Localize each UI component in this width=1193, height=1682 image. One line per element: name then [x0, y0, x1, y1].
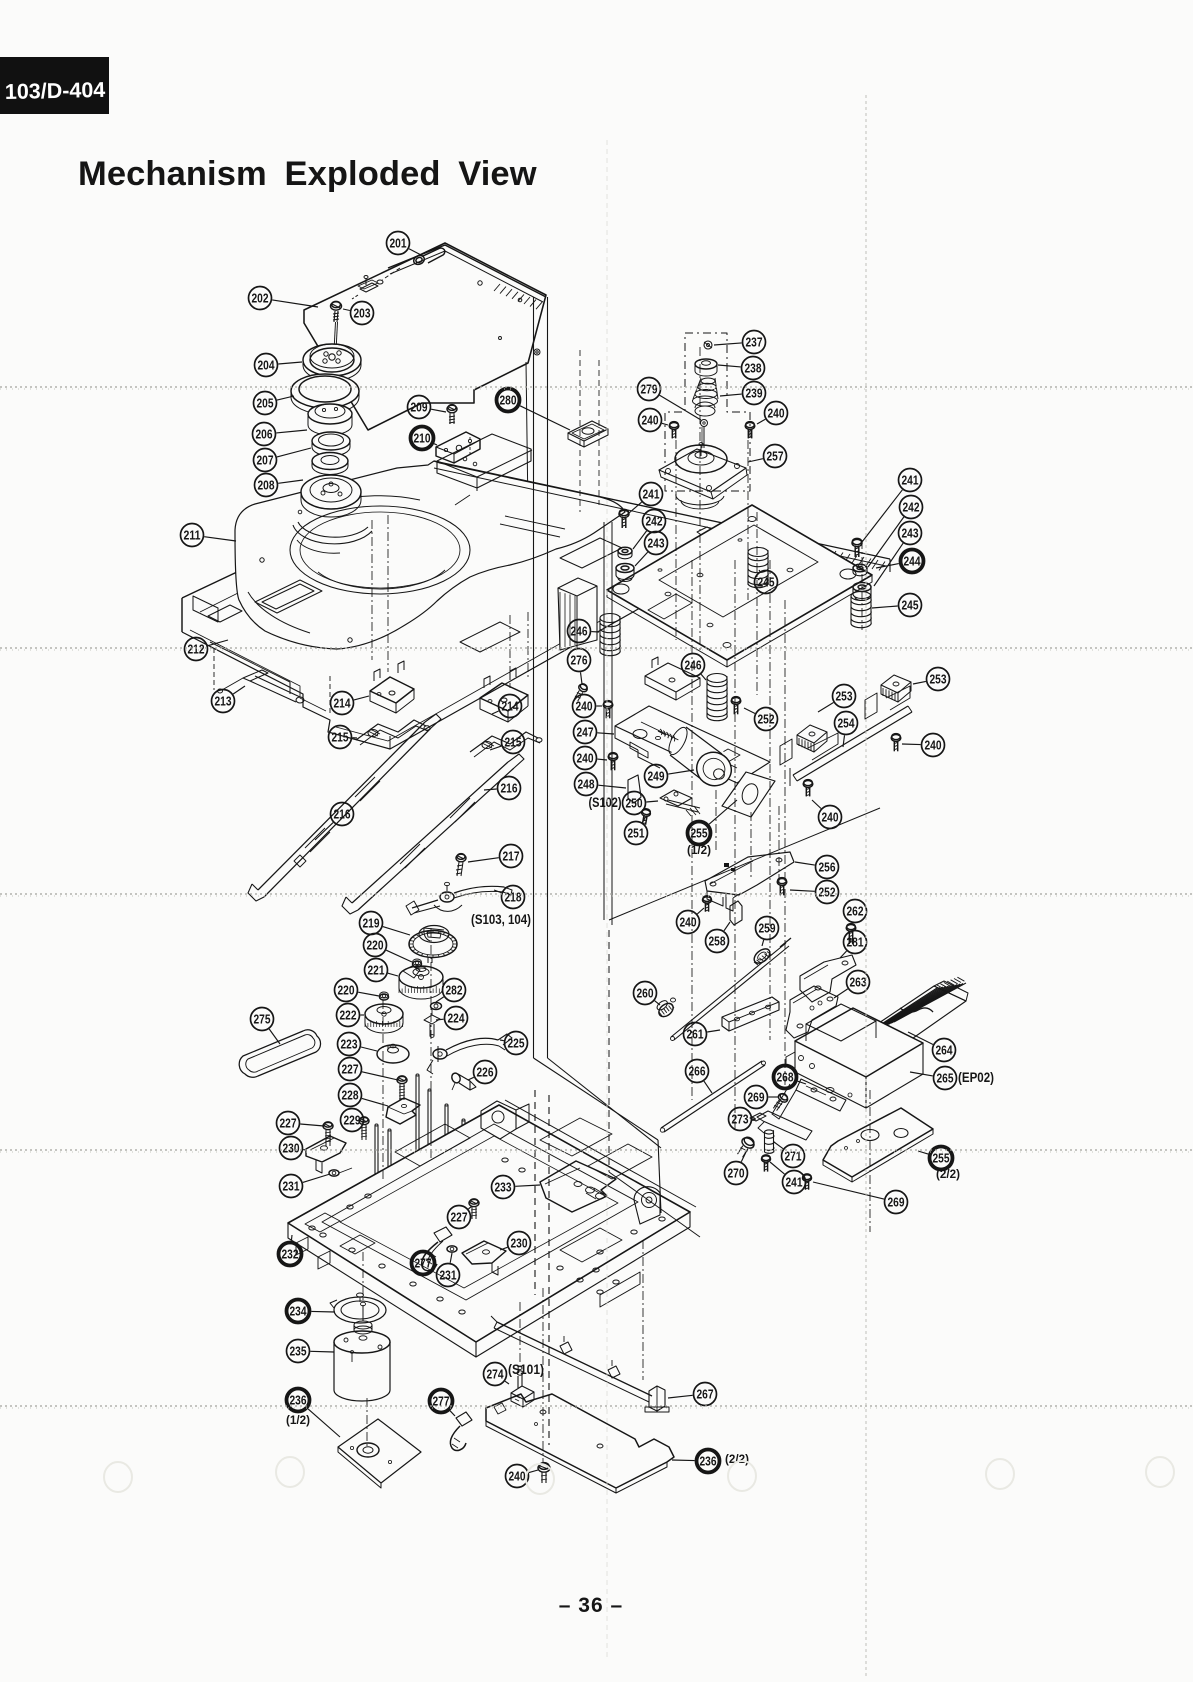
svg-text:240: 240: [822, 810, 839, 824]
spring 245 right: [851, 592, 871, 628]
label 2/2 under 255: [936, 1169, 960, 1181]
bar 254: [790, 706, 912, 786]
bracket 210: [436, 432, 480, 463]
ghost marks: [104, 1457, 1174, 1494]
knob 260: [654, 998, 676, 1020]
latch 213: [218, 670, 305, 703]
svg-text:207: 207: [257, 453, 274, 467]
svg-text:245: 245: [902, 598, 919, 612]
screw 237: [704, 341, 712, 349]
plate 236 (1/2): [338, 1419, 421, 1488]
svg-text:215: 215: [505, 735, 522, 749]
all callout circles: [181, 232, 957, 1488]
svg-text:209: 209: [411, 400, 428, 414]
svg-text:255: 255: [691, 826, 708, 840]
washer 242 right set: [853, 564, 867, 576]
ring 208: [312, 453, 348, 475]
svg-text:203: 203: [354, 306, 371, 320]
svg-text:241: 241: [643, 487, 660, 501]
spring cone 239: [693, 378, 719, 416]
svg-text:234: 234: [290, 1304, 307, 1318]
hatching on top plate rail: [494, 284, 542, 309]
disc 223: [377, 1044, 409, 1063]
bracket 247: [615, 706, 770, 783]
svg-text:237: 237: [746, 335, 763, 349]
motor 249: [665, 725, 737, 792]
screw 270: [735, 1135, 757, 1159]
svg-text:232: 232: [282, 1247, 299, 1261]
svg-text:240: 240: [577, 751, 594, 765]
svg-text:261: 261: [687, 1027, 704, 1041]
svg-text:240: 240: [925, 738, 942, 752]
svg-text:282: 282: [446, 983, 463, 997]
rod 266: [660, 1061, 765, 1132]
chassis holes: [309, 1158, 665, 1314]
tray rail long: [434, 461, 890, 572]
large ring 205: [291, 374, 359, 414]
svg-text:211: 211: [184, 528, 201, 542]
screw 229: [359, 1117, 369, 1140]
page number: [559, 1594, 623, 1617]
lever 215 left: [356, 720, 430, 745]
label 1/2 under 236: [286, 1415, 310, 1427]
chassis front tabs: [296, 1237, 640, 1307]
svg-text:241: 241: [786, 1175, 803, 1189]
upper bracket near 246: [645, 657, 700, 700]
screw 240 d: [891, 734, 901, 752]
switch 250 S102: [660, 790, 700, 816]
svg-text:266: 266: [689, 1064, 706, 1078]
bracket 263: [786, 986, 838, 1038]
svg-text:(2/2): (2/2): [936, 1169, 960, 1181]
svg-text:264: 264: [936, 1043, 953, 1057]
svg-text:250: 250: [626, 796, 643, 810]
projection verticals mid pair: [604, 522, 880, 1237]
screw 251: [640, 808, 652, 825]
motor 235: [334, 1302, 390, 1401]
svg-text:227: 227: [451, 1210, 468, 1224]
svg-text:224: 224: [448, 1011, 465, 1025]
scan streaks: [0, 387, 1193, 1408]
bracket 256: [705, 852, 794, 911]
gear 221: [399, 966, 443, 999]
spring 271: [765, 1130, 774, 1153]
slide bar 216 left: [248, 714, 441, 901]
screw 241 left set: [619, 509, 629, 528]
washer 231 a: [329, 1168, 352, 1176]
sheet 255 (1/2): [722, 772, 775, 817]
svg-text:240: 240: [768, 406, 785, 420]
screw 227 b: [323, 1122, 333, 1146]
svg-text:220: 220: [338, 983, 355, 997]
slide bar 216 right: [342, 754, 524, 914]
svg-text:202: 202: [252, 291, 269, 305]
screw 241 right set: [852, 538, 862, 557]
svg-text:208: 208: [258, 478, 275, 492]
svg-text:252: 252: [758, 712, 775, 726]
svg-text:216: 216: [334, 807, 351, 821]
svg-text:269: 269: [888, 1195, 905, 1209]
svg-text:265: 265: [937, 1071, 954, 1085]
svg-text:245: 245: [758, 575, 775, 589]
svg-text:259: 259: [759, 921, 776, 935]
strap 268: [772, 1079, 846, 1119]
svg-text:240: 240: [509, 1469, 526, 1483]
tag 248: [628, 775, 641, 803]
chassis right hub: [634, 1187, 660, 1224]
small parts on plate top: [352, 276, 378, 300]
platter 204: [303, 344, 361, 381]
svg-text:213: 213: [215, 694, 232, 708]
svg-text:222: 222: [340, 1008, 357, 1022]
washer 238: [695, 359, 717, 376]
guide pin 201: [377, 248, 445, 284]
dash box 257: [665, 333, 750, 491]
svg-text:258: 258: [709, 934, 726, 948]
svg-text:281: 281: [847, 935, 864, 949]
screw 240 c: [603, 701, 613, 719]
svg-text:206: 206: [256, 427, 273, 441]
svg-text:217: 217: [503, 849, 520, 863]
screw 209: [447, 405, 457, 424]
pulley 208 lower: [293, 475, 372, 553]
spring 246 second: [707, 674, 727, 721]
chassis N ear: [481, 1101, 529, 1139]
head block 265: [786, 1004, 923, 1108]
bracket 230 b: [462, 1241, 506, 1275]
shaft 279: [701, 420, 708, 449]
label S101: [508, 1362, 544, 1377]
svg-text:210: 210: [414, 431, 431, 445]
sheet 255 (2/2): [823, 1108, 933, 1182]
switch 274 S101: [511, 1367, 534, 1408]
svg-text:227: 227: [280, 1116, 297, 1130]
centerlines dash-dot: [363, 347, 870, 1462]
ring 207: [312, 432, 350, 456]
svg-text:277: 277: [415, 1256, 432, 1270]
washer 242 left set: [618, 547, 632, 559]
screw 240 left of 257: [669, 422, 679, 439]
screw 240 f: [803, 780, 813, 797]
screw 227 a: [397, 1076, 407, 1100]
svg-text:204: 204: [258, 358, 275, 372]
svg-text:(S102): (S102): [589, 795, 622, 810]
tray body 212: [182, 572, 660, 749]
svg-text:216: 216: [501, 781, 518, 795]
tray platform 211: [235, 461, 625, 652]
svg-text:252: 252: [819, 885, 836, 899]
screw 252 b: [777, 878, 787, 896]
lever 225: [427, 1034, 512, 1074]
svg-text:223: 223: [341, 1037, 358, 1051]
gear 222: [365, 1004, 403, 1033]
clip 253 b: [780, 725, 838, 765]
bracket 230 a: [306, 1136, 346, 1173]
chassis pins: [375, 1074, 483, 1212]
svg-text:218: 218: [505, 890, 522, 904]
svg-text:280: 280: [500, 393, 517, 407]
tray end block: [558, 578, 597, 650]
label S102: [589, 795, 622, 810]
svg-text:253: 253: [836, 689, 853, 703]
label S103 104: [471, 912, 531, 927]
svg-text:242: 242: [903, 500, 920, 514]
svg-text:243: 243: [902, 526, 919, 540]
svg-text:229: 229: [344, 1113, 361, 1127]
screw 217: [456, 854, 466, 876]
svg-text:(2/2): (2/2): [725, 1454, 749, 1466]
bracket 233: [540, 1161, 616, 1212]
svg-text:236: 236: [290, 1393, 307, 1407]
nut 220 a: [413, 959, 422, 967]
svg-text:221: 221: [368, 963, 385, 977]
svg-text:(EP02): (EP02): [958, 1070, 994, 1085]
svg-text:240: 240: [576, 699, 593, 713]
stud 224: [424, 1008, 440, 1037]
ribbon 264: [860, 977, 968, 1056]
svg-text:(S101): (S101): [508, 1362, 544, 1377]
svg-text:255: 255: [933, 1151, 950, 1165]
top plate 201 assembly outline: [304, 243, 548, 512]
svg-text:Mechanism Exploded View: Mechanism Exploded View: [78, 155, 537, 193]
svg-text:269: 269: [748, 1090, 765, 1104]
screw 240 g: [703, 896, 712, 912]
washer 231 b: [447, 1246, 457, 1252]
svg-text:242: 242: [646, 514, 663, 528]
screw 241 c: [762, 1155, 771, 1172]
svg-text:201: 201: [390, 236, 407, 250]
projection dashes upper tray: [580, 350, 599, 512]
svg-text:239: 239: [746, 386, 763, 400]
screw 269 a: [771, 1092, 790, 1113]
svg-text:246: 246: [685, 658, 702, 672]
svg-text:254: 254: [838, 716, 855, 730]
label 2/2 right of 236: [725, 1454, 749, 1466]
lever 218 S103 104: [406, 882, 512, 915]
screw 276: [572, 682, 589, 702]
mount block under 210: [437, 434, 532, 491]
label EP02: [958, 1070, 994, 1085]
svg-text:249: 249: [648, 769, 665, 783]
belt 275: [239, 1030, 320, 1077]
shaft 259: [671, 938, 792, 1041]
svg-text:226: 226: [477, 1065, 494, 1079]
fold line right: [865, 95, 867, 1678]
screw 227 c: [469, 1199, 479, 1219]
svg-text:227: 227: [342, 1062, 359, 1076]
screw 240 right of 257: [745, 422, 755, 439]
bracket 228: [386, 1098, 420, 1124]
grommet 243 right set: [853, 583, 871, 601]
bar 267: [491, 1316, 669, 1412]
svg-text:(S103, 104): (S103, 104): [471, 912, 531, 927]
plunger 226: [450, 1072, 476, 1090]
svg-text:268: 268: [777, 1070, 794, 1084]
svg-text:271: 271: [785, 1149, 802, 1163]
bracket 281: [800, 955, 856, 1002]
svg-text:230: 230: [511, 1236, 528, 1250]
screw 240 e: [608, 753, 618, 771]
svg-text:267: 267: [697, 1387, 714, 1401]
svg-text:220: 220: [367, 938, 384, 952]
plate 244: [607, 505, 872, 667]
svg-text:275: 275: [254, 1012, 271, 1026]
svg-text:241: 241: [902, 473, 919, 487]
svg-text:103/D-404: 103/D-404: [5, 78, 106, 104]
bracket 214 right: [480, 668, 528, 722]
projection verticals left pair: [534, 297, 662, 1445]
lever 215 right: [470, 732, 542, 757]
nut 220 b: [380, 992, 389, 1000]
bracket 214 left: [370, 661, 414, 713]
svg-text:247: 247: [577, 725, 594, 739]
wire 277 b: [450, 1412, 472, 1450]
button 280: [568, 421, 608, 447]
screw 269 b: [803, 1174, 812, 1190]
svg-text:256: 256: [819, 860, 836, 874]
svg-text:253: 253: [930, 672, 947, 686]
fold line left: [606, 140, 608, 1660]
svg-text:248: 248: [578, 777, 595, 791]
svg-text:274: 274: [487, 1367, 504, 1381]
svg-text:238: 238: [745, 361, 762, 375]
svg-text:214: 214: [334, 696, 351, 710]
svg-text:– 36 –: – 36 –: [559, 1594, 623, 1617]
spring 246 left: [600, 614, 620, 656]
pcb 236 (2/2): [486, 1394, 674, 1493]
screw 203: [331, 301, 342, 370]
latch 273: [750, 1111, 812, 1140]
svg-text:228: 228: [342, 1088, 359, 1102]
wire 277 a: [422, 1227, 452, 1271]
svg-text:263: 263: [850, 975, 867, 989]
ring 234: [330, 1293, 386, 1323]
bar 261: [722, 997, 779, 1031]
svg-text:235: 235: [290, 1344, 307, 1358]
label 1/2 under 255: [687, 845, 711, 857]
svg-text:205: 205: [257, 396, 274, 410]
washer 282: [431, 1003, 442, 1010]
svg-text:225: 225: [508, 1036, 525, 1050]
bottom chassis 232: [288, 1100, 696, 1357]
svg-text:270: 270: [728, 1166, 745, 1180]
spring 245 mid: [748, 548, 768, 588]
tag 258: [730, 901, 742, 925]
svg-text:276: 276: [571, 653, 588, 667]
screw 262: [846, 924, 856, 945]
drum 206: [308, 404, 352, 435]
svg-text:246: 246: [571, 624, 588, 638]
svg-text:260: 260: [637, 986, 654, 1000]
svg-text:240: 240: [642, 413, 659, 427]
gear 219: [409, 926, 457, 964]
svg-text:219: 219: [363, 916, 380, 930]
svg-text:244: 244: [904, 554, 921, 568]
svg-text:231: 231: [440, 1268, 457, 1282]
svg-text:(1/2): (1/2): [286, 1415, 310, 1427]
svg-text:262: 262: [847, 904, 864, 918]
tray rail clips: [697, 522, 773, 554]
motor 249 worm: [658, 729, 675, 741]
page title: [78, 155, 537, 193]
clip 253 a: [865, 675, 911, 719]
svg-text:(1/2): (1/2): [687, 845, 711, 857]
screw 240 bottom: [538, 1463, 550, 1483]
model label black box: [0, 57, 109, 114]
motor 257: [659, 443, 747, 509]
svg-text:214: 214: [502, 699, 519, 713]
svg-text:273: 273: [732, 1112, 749, 1126]
svg-text:236: 236: [700, 1454, 717, 1468]
svg-text:257: 257: [767, 449, 784, 463]
svg-text:240: 240: [680, 915, 697, 929]
svg-text:243: 243: [648, 536, 665, 550]
svg-text:251: 251: [628, 826, 645, 840]
svg-text:212: 212: [188, 642, 205, 656]
screw 252 a: [731, 697, 741, 715]
svg-text:231: 231: [283, 1179, 300, 1193]
svg-text:215: 215: [332, 730, 349, 744]
svg-text:233: 233: [495, 1180, 512, 1194]
grommet 243 left set: [616, 564, 634, 582]
svg-text:230: 230: [283, 1141, 300, 1155]
